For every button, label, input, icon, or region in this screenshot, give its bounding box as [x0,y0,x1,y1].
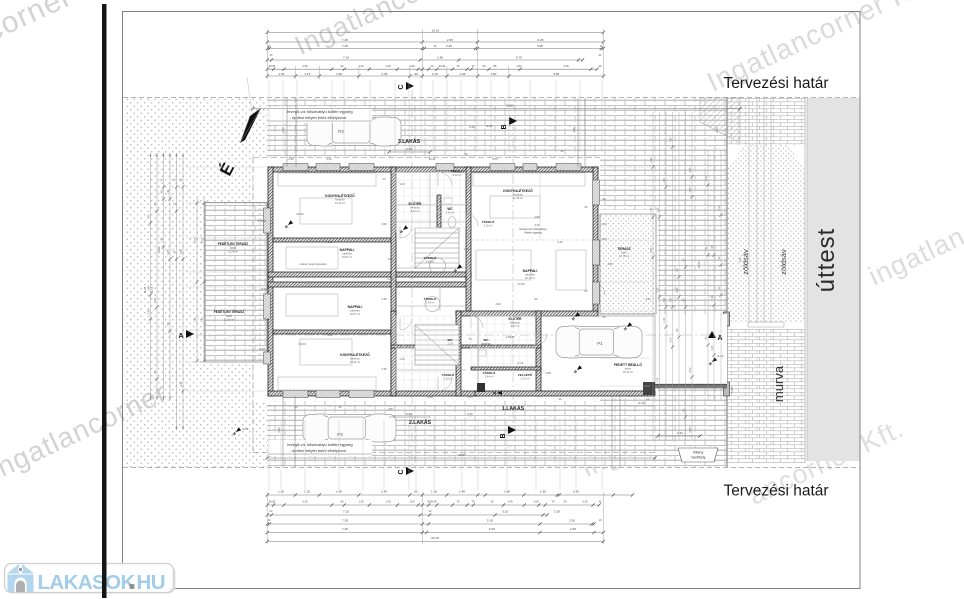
svg-text:1.15: 1.15 [304,72,310,76]
inner wall upper [273,238,391,242]
terrace box left [205,203,267,363]
svg-text:TÁROLÓ: TÁROLÓ [450,169,464,174]
section line B [512,120,514,428]
svg-text:±0.00: ±0.00 [517,282,525,286]
svg-text:beltéri egység: beltéri egység [524,231,542,235]
svg-text:TÁROLÓ: TÁROLÓ [442,372,455,377]
marker A right [708,331,716,338]
site ground: paved plot [267,98,727,467]
svg-text:1.95: 1.95 [689,167,692,172]
svg-text:TERASZ: TERASZ [617,247,631,251]
svg-text:kerámia: kerámia [481,342,491,346]
svg-text:B: B [500,433,507,438]
svg-text:2.60: 2.60 [570,527,576,531]
svg-text:5.88: 5.88 [730,387,734,393]
svg-text:2.40: 2.40 [663,317,666,322]
svg-text:5.20: 5.20 [327,240,333,244]
svg-text:2.50: 2.50 [569,519,575,523]
car P3 [303,413,396,443]
svg-text:2.30: 2.30 [288,157,294,161]
svg-text:4.40: 4.40 [557,240,563,244]
svg-text:1.00: 1.00 [409,500,415,504]
svg-text:C: C [398,469,405,474]
svg-text:1.58: 1.58 [387,407,393,411]
svg-text:1.40: 1.40 [160,237,163,242]
svg-text:1.85: 1.85 [437,55,443,59]
svg-text:3.00: 3.00 [645,297,651,301]
inner wall lower [273,330,391,334]
svg-text:1.08,80: 1.08,80 [506,335,515,339]
svg-text:1.40: 1.40 [154,297,157,302]
marker B bottom [508,426,516,434]
svg-text:7.40: 7.40 [650,207,653,212]
svg-text:7.40: 7.40 [194,317,197,322]
svg-text:7.35: 7.35 [342,44,348,48]
svg-text:20.10 m²: 20.10 m² [525,276,535,280]
svg-text:2.35: 2.35 [381,297,387,301]
svg-text:2.30: 2.30 [582,500,588,504]
svg-text:3.55: 3.55 [688,427,692,433]
svg-text:2.45: 2.45 [406,412,412,416]
svg-text:7.40: 7.40 [201,317,204,322]
car P2 [307,116,401,147]
staircase lower [415,325,459,365]
svg-text:12.75 m²: 12.75 m² [619,254,629,258]
plot boundary dashed top [123,97,860,99]
svg-text:1.45: 1.45 [507,500,513,504]
outer wall left [268,167,273,396]
dim 18.67 [267,457,655,459]
car P1 [556,325,642,359]
plot boundary dashed bottom [123,467,860,469]
svg-text:1.00: 1.00 [399,182,405,186]
svg-text:5.75: 5.75 [516,55,522,59]
svg-text:2.40: 2.40 [180,381,183,386]
right vertical chains [652,112,654,440]
svg-text:-0.12: -0.12 [717,354,724,358]
svg-text:3.20: 3.20 [572,127,576,133]
svg-text:kerámia: kerámia [350,357,360,361]
bottom extension lines [268,420,270,490]
svg-text:3.LAKÁS: 3.LAKÁS [398,138,421,145]
svg-text:fedő: fedő [621,251,627,255]
bottom rooms block walls [391,311,396,396]
svg-text:6.20: 6.20 [467,412,473,416]
svg-text:5,35: 5,35 [427,395,433,399]
svg-text:2.40: 2.40 [650,157,653,162]
svg-text:1.60: 1.60 [540,490,546,494]
svg-text:11.95: 11.95 [697,261,701,268]
svg-text:P1: P1 [597,341,603,346]
svg-text:WC: WC [447,207,453,211]
north needle [240,108,261,143]
mid vertical dims [286,98,288,167]
door swing arcs [438,172,452,186]
drawing border [123,12,861,589]
furniture lower unit [278,377,376,390]
svg-text:TÁROLÓ: TÁROLÓ [424,255,437,260]
svg-text:ELŐTÉR: ELŐTÉR [409,201,423,206]
svg-text:±0.00: ±0.00 [296,212,304,216]
svg-text:8.50: 8.50 [492,157,498,161]
svg-text:TÁROLÓ: TÁROLÓ [483,370,496,375]
svg-text:4.90: 4.90 [326,157,332,161]
svg-text:8.21 m²: 8.21 m² [411,209,420,213]
windows top wall [283,164,308,171]
core wall right [466,167,471,311]
lakasok.hu logo [5,564,176,595]
svg-text:3.16 m²: 3.16 m² [453,173,462,177]
svg-text:11.45 m²: 11.45 m² [513,196,523,200]
svg-text:7.41: 7.41 [738,257,742,263]
svg-text:3.10 m²: 3.10 m² [484,224,493,228]
uttest road area [807,98,860,461]
svg-text:2.40: 2.40 [669,297,672,302]
svg-text:±0.00: ±0.00 [298,342,306,346]
svg-text:beton: beton [625,367,632,371]
right extension lines [600,166,650,168]
svg-text:FEDETLEN TERASZ: FEDETLEN TERASZ [214,310,245,314]
svg-text:zöldsáv: zöldsáv [741,249,750,275]
svg-text:5.20: 5.20 [327,333,333,337]
svg-text:2.65: 2.65 [601,237,607,241]
svg-text:8.00: 8.00 [201,237,204,242]
section line A [196,334,720,336]
svg-text:2.90: 2.90 [495,302,501,306]
svg-text:3.67 m²: 3.67 m² [511,324,520,328]
svg-text:- építési helyen belül elhelye: - építési helyen belül elhelyezve [290,448,347,453]
svg-text:-0.12: -0.12 [517,361,524,365]
outer wall bottom [268,391,478,396]
svg-text:-0.12: -0.12 [486,124,493,128]
svg-text:2.30: 2.30 [554,510,560,514]
M flags [284,220,294,229]
carport pillars [477,383,485,392]
dim 2.45 top [389,151,430,153]
hatched verge trapezoid [700,98,740,143]
svg-text:2.45: 2.45 [446,44,452,48]
svg-text:1.40: 1.40 [147,285,150,290]
svg-text:1.90: 1.90 [336,72,342,76]
svg-text:8.00: 8.00 [261,287,267,291]
svg-text:90,40: 90,40 [429,157,436,161]
svg-text:1.85: 1.85 [504,490,510,494]
svg-text:1.80: 1.80 [534,215,540,219]
site ground: dotted zone [124,98,267,467]
murva gravel area [727,329,805,463]
svg-text:-0.12: -0.12 [638,401,645,405]
outer wall top [268,167,598,172]
terasz right [600,214,656,314]
svg-text:3.10 m²: 3.10 m² [444,377,453,381]
svg-text:30,40: 30,40 [439,64,446,68]
svg-text:levegő-víz hőszivattyú kültéri: levegő-víz hőszivattyú kültéri egység [287,442,352,447]
dim 2.45 bottom lakas2 [389,416,430,418]
svg-text:60: 60 [414,490,418,494]
wc fixtures [448,217,456,228]
heatpump note bottom [268,440,372,456]
svg-text:Tervezési határ: Tervezési határ [723,75,828,92]
svg-text:2.31: 2.31 [677,431,683,435]
svg-text:1.18: 1.18 [431,490,437,494]
building limit dashed [253,157,600,159]
svg-text:1.00: 1.00 [387,257,393,261]
svg-text:2.41 m²: 2.41 m² [446,211,455,215]
svg-text:M: M [493,392,496,396]
svg-text:4.85: 4.85 [545,371,551,375]
svg-text:parketta: parketta [525,273,535,277]
section line C [411,90,413,465]
svg-text:5.00,40: 5.00,40 [258,219,267,223]
svg-text:2.40 m²: 2.40 m² [426,301,435,305]
svg-text:2030,40: 2030,40 [427,500,437,504]
svg-text:1.05: 1.05 [463,247,469,251]
svg-text:7.40: 7.40 [669,137,672,142]
dim 20.83 [253,108,740,110]
svg-text:7.40: 7.40 [711,295,714,300]
sidewalk strip [727,98,805,145]
svg-text:NAPPALI: NAPPALI [348,305,363,309]
svg-text:NAPPALI: NAPPALI [340,248,355,252]
svg-text:16.15: 16.15 [431,29,439,33]
svg-text:HU: HU [137,571,165,594]
svg-text:KONYHA-ÉTKEZŐ: KONYHA-ÉTKEZŐ [503,188,533,193]
svg-text:3.50: 3.50 [669,337,672,342]
svg-text:1.00: 1.00 [533,500,539,504]
svg-text:1.44 m²: 1.44 m² [485,375,494,379]
left vertical chains [150,153,152,400]
svg-text:1.48: 1.48 [459,490,465,494]
svg-text:7.45: 7.45 [342,38,348,42]
svg-text:KONYHA-ÉTKEZŐ: KONYHA-ÉTKEZŐ [325,193,355,198]
furniture right unit [473,173,585,186]
svg-text:1.50: 1.50 [490,72,496,76]
svg-text:2.20 m²: 2.20 m² [521,377,530,381]
svg-text:A: A [178,333,183,340]
svg-text:16.67 m²: 16.67 m² [342,255,352,259]
svg-text:2.45: 2.45 [381,72,387,76]
svg-text:P2: P2 [338,129,344,134]
svg-text:WC: WC [448,338,454,342]
svg-text:FEDETLEN TERASZ: FEDETLEN TERASZ [218,242,249,246]
svg-text:3.85: 3.85 [689,187,692,192]
marker B top [509,117,517,125]
party wall double [268,272,471,277]
svg-text:úttest: úttest [813,228,840,293]
svg-text:1.35: 1.35 [385,64,391,68]
svg-text:10.14 m²: 10.14 m² [350,360,360,364]
svg-text:5,05: 5,05 [467,395,473,399]
svg-text:7.15: 7.15 [343,55,349,59]
svg-text:2.10: 2.10 [399,357,405,361]
svg-text:kerámia: kerámia [410,206,420,210]
svg-text:11.06 m²: 11.06 m² [224,318,234,322]
svg-text:2.40: 2.40 [705,175,708,180]
svg-text:szálas hangszigetelés: szálas hangszigetelés [299,262,327,266]
windows right wall [593,180,600,205]
svg-text:1.35: 1.35 [278,490,284,494]
svg-text:2.30: 2.30 [302,500,308,504]
svg-text:7.40: 7.40 [656,377,659,382]
svg-text:3.40: 3.40 [563,64,569,68]
fence wall to street [655,384,727,387]
base line under building [267,405,655,407]
svg-text:WC: WC [484,338,490,342]
svg-text:1.95: 1.95 [656,207,659,212]
svg-text:1.65: 1.65 [180,249,183,254]
svg-text:2.30: 2.30 [302,64,308,68]
svg-text:Tervezési határ: Tervezési határ [723,483,828,500]
svg-text:30,50: 30,50 [269,64,276,68]
svg-text:TÁROLÓ: TÁROLÓ [424,296,437,301]
svg-text:10.14 m²: 10.14 m² [335,201,345,205]
svg-text:murva: murva [771,365,786,402]
svg-text:2.LAKÁS: 2.LAKÁS [409,419,432,426]
svg-text:2.76: 2.76 [715,127,719,133]
svg-text:2.35: 2.35 [381,367,387,371]
svg-text:2.45: 2.45 [381,490,387,494]
svg-text:30,50: 30,50 [269,500,276,504]
core detail lines [396,204,466,206]
svg-text:1.35: 1.35 [385,500,391,504]
svg-text:parketta: parketta [342,252,352,256]
svg-text:1.18: 1.18 [432,72,438,76]
svg-text:C: C [398,84,405,89]
outer wall right [593,167,598,316]
svg-text:P3: P3 [337,432,343,437]
svg-text:1.50: 1.50 [516,64,522,68]
svg-text:16.15: 16.15 [431,536,439,540]
svg-text:2.40: 2.40 [534,223,540,227]
svg-text:3.53: 3.53 [381,222,387,226]
svg-text:2.85: 2.85 [607,262,613,266]
svg-text:7.35: 7.35 [342,519,348,523]
svg-text:2.60: 2.60 [573,490,579,494]
top dimension chains [267,32,603,34]
svg-text:15.11 m²: 15.11 m² [623,370,633,374]
svg-text:1.20: 1.20 [358,500,364,504]
svg-text:1.40: 1.40 [167,189,170,194]
svg-text:KONYHA-ÉTKEZŐ: KONYHA-ÉTKEZŐ [340,352,370,357]
separator heavy bar [102,4,107,598]
building envelope white [253,157,600,401]
svg-text:1.40: 1.40 [147,309,150,314]
stair circle lower [425,297,440,312]
svg-text:ELŐTÉR: ELŐTÉR [509,316,523,321]
svg-text:6.40: 6.40 [259,347,265,351]
zoldsav dotted strip [727,145,805,325]
svg-text:2.10: 2.10 [447,342,453,346]
furniture upper unit [278,173,376,186]
svg-text:20.83: 20.83 [506,104,514,108]
svg-text:zöldsáv: zöldsáv [779,249,788,275]
svg-text:kerámia: kerámia [335,198,345,202]
svg-text:TÁROLÓ: TÁROLÓ [482,219,495,224]
svg-text:2.60 m²: 2.60 m² [426,260,435,264]
top extension lines [268,80,270,152]
svg-text:3.15: 3.15 [502,510,508,514]
svg-text:2.45: 2.45 [469,125,475,129]
svg-text:1.15: 1.15 [304,490,310,494]
core wall left [391,167,396,396]
svg-text:3.50: 3.50 [689,367,692,372]
windows bottom wall [283,391,308,398]
bottom dimension chains [267,494,632,496]
svg-text:-0.15: -0.15 [242,427,249,431]
svg-text:11.06 m²: 11.06 m² [228,250,238,254]
left extension lines [186,166,266,168]
dim 2.31 [658,435,700,437]
svg-text:LAKASOK: LAKASOK [38,571,136,594]
svg-text:11.95: 11.95 [143,286,147,293]
svg-text:B: B [501,124,508,129]
svg-text:1.65: 1.65 [167,249,170,254]
svg-text:3.85: 3.85 [676,287,679,292]
svg-text:7.40: 7.40 [711,245,714,250]
marker C top [406,82,414,90]
svg-text:1.00: 1.00 [409,64,415,68]
svg-text:2.65: 2.65 [447,38,453,42]
wc partition [437,195,441,231]
svg-text:1.48: 1.48 [459,72,465,76]
svg-text:7.15: 7.15 [343,510,349,514]
svg-text:2.40: 2.40 [650,247,653,252]
svg-text:A: A [717,335,722,342]
svg-text:16.67 m²: 16.67 m² [350,312,360,316]
svg-text:- építési helyen belül elhelye: - építési helyen belül elhelyezve [290,115,347,120]
svg-text:2.40: 2.40 [601,222,607,226]
heatpump note top [268,107,372,123]
svg-text:2.40: 2.40 [387,277,393,281]
villany merohely [678,448,718,462]
svg-text:kerámia: kerámia [510,321,520,325]
svg-text:3.50: 3.50 [656,287,659,292]
staircase upper [415,228,459,268]
svg-text:Villany: Villany [693,451,704,455]
wall nappali right-unit bottom [456,311,598,316]
svg-text:NAPPALI: NAPPALI [523,269,538,273]
svg-text:FEDETT BEÁLLÓ: FEDETT BEÁLLÓ [614,362,642,367]
road-side guide lines [748,98,750,323]
stair circle upper [430,258,446,274]
svg-text:3.50: 3.50 [718,205,721,210]
tile grids [395,172,397,232]
svg-text:1.90: 1.90 [336,490,342,494]
svg-text:2.40: 2.40 [711,345,714,350]
svg-text:kerámia: kerámia [513,193,523,197]
svg-text:5.95: 5.95 [537,44,543,48]
windows left wall [264,208,271,233]
svg-text:FELLÉPŐ: FELLÉPŐ [518,372,533,377]
svg-text:1.20: 1.20 [358,64,364,68]
svg-text:60: 60 [414,72,418,76]
svg-text:5.45: 5.45 [489,527,495,531]
fence pillars [724,312,730,326]
svg-text:6.05: 6.05 [537,38,543,42]
svg-text:4.55: 4.55 [553,72,559,76]
svg-text:3.20: 3.20 [277,427,281,433]
svg-text:parketta: parketta [350,309,360,313]
carport slab [478,316,655,391]
svg-text:5.35: 5.35 [487,519,493,523]
svg-text:1.35: 1.35 [278,72,284,76]
svg-text:7.45: 7.45 [342,527,348,531]
svg-text:mérőhely: mérőhely [691,456,706,460]
marker C bottom [406,467,414,475]
svg-text:10.95: 10.95 [157,246,161,253]
svg-text:11.15: 11.15 [150,286,154,293]
svg-text:8.00: 8.00 [194,237,197,242]
